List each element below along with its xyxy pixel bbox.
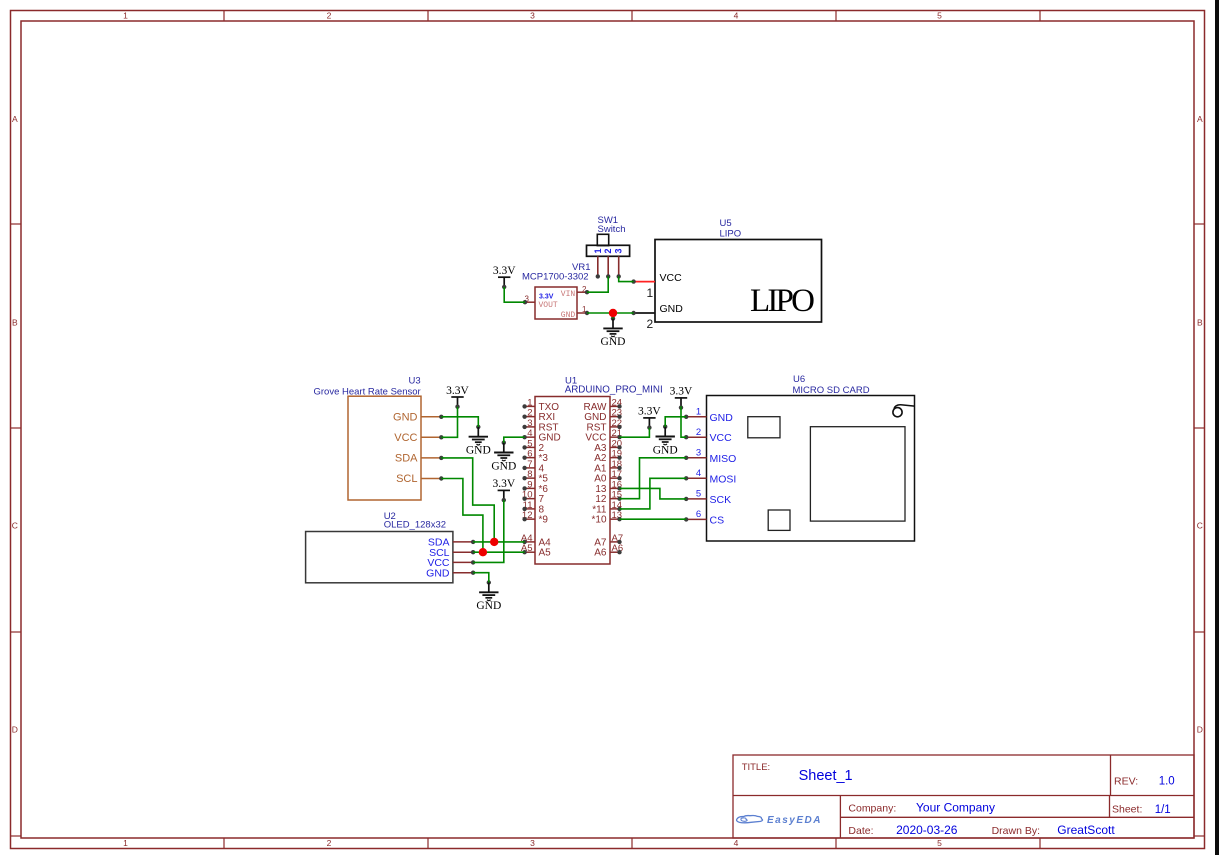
wire SCK U1 pin16 to U6 pin5 — [620, 488, 687, 499]
wire U6 VCC to 3.3V — [681, 406, 686, 437]
U1 pin 9 end dot — [522, 486, 526, 490]
U5 VCC pin end dot — [631, 279, 635, 283]
U1 pin 19 stub — [610, 457, 620, 459]
wire CS U1 pin13 to U6 pin6 — [620, 518, 687, 520]
power symbol 3.3V near U6 VCC — [670, 386, 693, 410]
svg-text:EasyEDA: EasyEDA — [767, 815, 822, 826]
ground symbol near U6 — [653, 425, 678, 457]
junction dot GND net below VR1 — [609, 309, 617, 317]
svg-text:GND: GND — [601, 336, 626, 348]
title block — [733, 755, 1194, 838]
U3 pin SDA stub — [421, 457, 441, 459]
svg-text:3.3V: 3.3V — [492, 478, 515, 490]
U1 pin 16 stub — [610, 487, 620, 489]
wire SW1 pin3 to U5 VCC — [619, 276, 634, 281]
svg-text:D: D — [12, 725, 18, 735]
svg-text:TITLE:: TITLE: — [742, 762, 771, 773]
svg-text:C: C — [12, 521, 18, 531]
U6 pin 2 stub — [686, 436, 706, 438]
U1 pin 22 stub — [610, 426, 620, 428]
svg-text:*10: *10 — [591, 515, 606, 526]
frame column tick top — [1039, 11, 1041, 22]
U3 pin SCL stub — [421, 478, 441, 480]
U2 pin GND stub — [453, 572, 473, 574]
U2 pin GND end dot — [471, 571, 475, 575]
U1 pin 15 end dot — [617, 496, 621, 500]
regulator VR1 pin VOUT stub — [525, 301, 535, 303]
svg-text:1: 1 — [696, 407, 701, 418]
svg-text:A5: A5 — [539, 548, 552, 559]
U1 pin 24 stub — [610, 405, 620, 407]
svg-text:GND: GND — [710, 412, 734, 424]
connector U5 body — [655, 240, 822, 323]
U1 pin A6 stub — [610, 551, 620, 553]
svg-text:GND: GND — [476, 600, 501, 612]
svg-text:LIPO: LIPO — [720, 228, 742, 239]
ground symbol near U3 — [466, 425, 491, 457]
U2 pin VCC end dot — [471, 560, 475, 564]
svg-text:1: 1 — [647, 286, 654, 300]
svg-text:1: 1 — [593, 248, 603, 253]
svg-text:2: 2 — [603, 248, 613, 253]
svg-text:MICRO SD CARD: MICRO SD CARD — [793, 385, 870, 396]
U1 pin 23 end dot — [617, 414, 621, 418]
svg-text:3.3V: 3.3V — [446, 385, 469, 397]
switch SW1 pin 1 end dot — [596, 274, 600, 278]
U1 pin 20 stub — [610, 446, 620, 448]
svg-text:6: 6 — [696, 509, 701, 520]
svg-text:SDA: SDA — [395, 453, 418, 465]
svg-text:4: 4 — [734, 11, 739, 21]
regulator VR1 pin VIN stub — [577, 291, 587, 293]
U1 pin 17 end dot — [617, 476, 621, 480]
U1 pin 10 end dot — [522, 496, 526, 500]
svg-text:1: 1 — [123, 838, 128, 848]
wire VR1 GND to U5 GND — [587, 312, 634, 314]
U1 pin 6 end dot — [522, 455, 526, 459]
U6 inner rectangle large — [810, 427, 905, 521]
U3 pin SCL end dot — [439, 476, 443, 480]
U5 pin 1 VCC stub — [634, 281, 655, 283]
U1 pin 22 end dot — [617, 425, 621, 429]
svg-text:Sheet_1: Sheet_1 — [799, 768, 853, 784]
svg-text:D: D — [1197, 725, 1203, 735]
svg-text:GND: GND — [491, 460, 516, 472]
U2 pin SCL end dot — [471, 550, 475, 554]
switch SW1 pin 2 stub — [607, 256, 609, 276]
U1 pin 14 stub — [610, 508, 620, 510]
svg-text:Switch: Switch — [598, 224, 626, 235]
svg-text:4: 4 — [696, 468, 701, 479]
U6 inner rectangle small bottom — [768, 510, 790, 530]
frame row tick right — [1194, 631, 1205, 633]
U6 pin 4 end dot — [684, 476, 688, 480]
svg-text:GND: GND — [466, 445, 491, 457]
wire 3.3V to U3 VCC — [441, 407, 457, 438]
U3 pin GND end dot — [439, 415, 443, 419]
ground symbol near U1 pin4 — [491, 441, 516, 473]
U1 pin 7 end dot — [522, 466, 526, 470]
U1 pin 7 stub — [525, 467, 535, 469]
frame column tick top — [223, 11, 225, 22]
U1 pin 8 stub — [525, 477, 535, 479]
U2 pin VCC stub — [453, 561, 473, 563]
VR1 VOUT pin end dot — [523, 300, 527, 304]
U6 pin 3 end dot — [684, 456, 688, 460]
power symbol 3.3V near VR1 — [493, 265, 516, 289]
svg-text:B: B — [12, 318, 18, 328]
svg-text:A: A — [12, 114, 18, 124]
U6 pin 1 stub — [686, 416, 706, 418]
wire 3.3V to VR1 VOUT — [504, 287, 525, 302]
U6 pin 5 end dot — [684, 497, 688, 501]
U6 pin 6 end dot — [684, 517, 688, 521]
power symbol 3.3V near U1 VCC — [638, 406, 661, 430]
U1 pin 15 stub — [610, 498, 620, 500]
switch SW1 pin 3 stub — [618, 256, 620, 276]
svg-text:GND: GND — [561, 311, 576, 320]
U1 pin A7 stub — [610, 541, 620, 543]
U6 pin 4 stub — [686, 477, 706, 479]
U1 pin 18 stub — [610, 467, 620, 469]
svg-text:SCK: SCK — [710, 494, 732, 506]
switch SW1 pin 3 end dot — [617, 274, 621, 278]
U1 pin A7 end dot — [617, 540, 621, 544]
frame row tick right — [1194, 427, 1205, 429]
svg-text:REV:: REV: — [1114, 775, 1138, 787]
power symbol 3.3V near U3 — [446, 385, 469, 409]
U1 pin 1 end dot — [522, 404, 526, 408]
wire U3 GND to ground — [441, 417, 478, 427]
connector U6 body — [707, 396, 915, 542]
U1 pin 13 end dot — [617, 517, 621, 521]
ground symbol below U2 — [476, 580, 501, 612]
wire U3 SDA to SDA net — [441, 458, 494, 542]
wire 3.3V to U2 VCC — [473, 500, 504, 562]
U1 pin 21 stub — [610, 436, 620, 438]
svg-text:2: 2 — [327, 838, 332, 848]
frame row tick left — [11, 835, 22, 837]
wire U1 VCC pin21 to 3.3V — [620, 428, 650, 438]
title block company/date divider — [840, 816, 1194, 818]
U6 pin 3 stub — [686, 457, 706, 459]
svg-text:A: A — [1197, 114, 1203, 124]
U1 pin 10 stub — [525, 498, 535, 500]
wire U1 GND pin4 to ground — [504, 437, 525, 443]
switch SW1 body — [587, 245, 630, 256]
U1 pin 20 end dot — [617, 445, 621, 449]
U1 pin A4 end dot — [522, 540, 526, 544]
U1 pin A5 stub — [525, 551, 535, 553]
svg-text:3.3V: 3.3V — [638, 406, 661, 418]
U1 pin 8 end dot — [522, 476, 526, 480]
U1 pin 3 stub — [525, 426, 535, 428]
svg-text:3.3V: 3.3V — [539, 294, 554, 301]
svg-text:GND: GND — [393, 411, 418, 423]
svg-text:ARDUINO_PRO_MINI: ARDUINO_PRO_MINI — [565, 385, 663, 396]
U1 pin 11 stub — [525, 508, 535, 510]
frame column tick bottom — [223, 838, 225, 849]
wire U2 GND to ground — [473, 573, 489, 583]
U1 pin 18 end dot — [617, 466, 621, 470]
svg-text:GND: GND — [653, 444, 678, 456]
U1 pin A4 stub — [525, 541, 535, 543]
svg-text:5: 5 — [937, 838, 942, 848]
svg-text:3.3V: 3.3V — [493, 265, 516, 277]
svg-text:LIPO: LIPO — [750, 283, 814, 319]
U6 card-detect lever — [894, 405, 915, 409]
U1 pin 5 end dot — [522, 445, 526, 449]
svg-text:VOUT: VOUT — [539, 301, 558, 310]
U6 pin 1 end dot — [684, 415, 688, 419]
svg-text:1/1: 1/1 — [1155, 804, 1171, 816]
wire U6 GND to ground — [665, 417, 686, 427]
U5 GND pin end dot — [631, 311, 635, 315]
U3 pin SDA end dot — [439, 456, 443, 460]
U1 pin 13 stub — [610, 518, 620, 520]
U1 pin 17 stub — [610, 477, 620, 479]
frame column tick top — [835, 11, 837, 22]
svg-text:4: 4 — [734, 838, 739, 848]
svg-text:B: B — [1197, 318, 1203, 328]
frame row tick left — [11, 223, 22, 225]
U1 pin 5 stub — [525, 446, 535, 448]
U1 pin 21 end dot — [617, 435, 621, 439]
svg-text:CS: CS — [710, 514, 725, 526]
frame column tick bottom — [1039, 838, 1041, 849]
svg-text:U3: U3 — [409, 375, 421, 386]
svg-text:GreatScott: GreatScott — [1057, 823, 1115, 837]
svg-text:5: 5 — [937, 11, 942, 21]
svg-text:MCP1700-3302: MCP1700-3302 — [522, 272, 589, 283]
svg-text:2: 2 — [696, 427, 701, 438]
regulator VR1 pin GND stub — [577, 312, 587, 314]
switch SW1 actuator tab — [597, 234, 608, 245]
svg-text:A6: A6 — [594, 548, 607, 559]
svg-text:3: 3 — [614, 248, 624, 253]
junction dot SDA net — [490, 538, 498, 546]
VR1 GND pin end dot — [585, 311, 589, 315]
regulator VR1 body — [535, 287, 577, 319]
U6 card-detect circle — [893, 408, 902, 417]
svg-text:5: 5 — [696, 489, 701, 500]
U1 pin 2 stub — [525, 416, 535, 418]
svg-text:VCC: VCC — [710, 432, 733, 444]
svg-text:SCL: SCL — [396, 473, 417, 485]
U1 pin 14 end dot — [617, 507, 621, 511]
U1 pin 9 stub — [525, 487, 535, 489]
U2 pin SCL stub — [453, 551, 473, 553]
U1 pin 12 end dot — [522, 517, 526, 521]
svg-text:MISO: MISO — [710, 453, 737, 465]
svg-text:U6: U6 — [793, 374, 805, 385]
frame row tick right — [1194, 835, 1205, 837]
wire MOSI U1 pin14 to U6 pin4 — [620, 478, 687, 509]
sensor U3 body — [348, 396, 421, 500]
svg-text:3: 3 — [530, 838, 535, 848]
U1 pin 16 end dot — [617, 486, 621, 490]
svg-text:C: C — [1197, 521, 1203, 531]
svg-text:GND: GND — [426, 568, 450, 580]
black screen edge right — [1215, 0, 1219, 855]
svg-text:VCC: VCC — [660, 272, 683, 284]
U6 pin 6 stub — [686, 518, 706, 520]
frame column tick top — [427, 11, 429, 22]
svg-text:3.3V: 3.3V — [670, 386, 693, 398]
U6 pin 5 stub — [686, 498, 706, 500]
svg-text:VIN: VIN — [561, 290, 576, 299]
EasyEDA logo — [737, 815, 822, 826]
U6 inner rectangle small top — [748, 417, 780, 438]
svg-text:1: 1 — [123, 11, 128, 21]
U2 pin SDA end dot — [471, 540, 475, 544]
wire U2 SDA to U1 A4 — [473, 541, 524, 543]
junction dot SCL net — [479, 548, 487, 556]
U1 pin A5 end dot — [522, 550, 526, 554]
U1 pin 11 end dot — [522, 507, 526, 511]
wire U2 SCL to U1 A5 — [473, 551, 524, 553]
svg-text:2: 2 — [647, 317, 654, 331]
frame column tick bottom — [427, 838, 429, 849]
U1 pin 6 stub — [525, 457, 535, 459]
svg-text:3: 3 — [696, 448, 701, 459]
wire SW1 pin2 to VR1 VIN — [587, 276, 608, 292]
U1 pin 2 end dot — [522, 414, 526, 418]
U2 pin SDA stub — [453, 541, 473, 543]
wire GND branch below VR1 — [612, 313, 614, 319]
frame column tick bottom — [835, 838, 837, 849]
svg-text:2: 2 — [327, 11, 332, 21]
U3 pin GND stub — [421, 416, 441, 418]
svg-text:*9: *9 — [539, 515, 549, 526]
U3 pin VCC end dot — [439, 435, 443, 439]
wire MISO U1 pin15 to U6 pin3 — [620, 458, 687, 499]
frame row tick left — [11, 631, 22, 633]
U1 pin 1 stub — [525, 405, 535, 407]
U5 pin 2 GND stub — [634, 312, 655, 314]
svg-text:3: 3 — [530, 11, 535, 21]
frame row tick left — [11, 427, 22, 429]
mcu U1 body — [535, 397, 610, 565]
svg-text:VCC: VCC — [394, 432, 417, 444]
wire U3 SCL to SCL net — [441, 479, 483, 553]
svg-text:Your Company: Your Company — [916, 801, 995, 815]
svg-text:Drawn By:: Drawn By: — [992, 825, 1040, 837]
title block divider horizontal — [733, 795, 1194, 797]
frame column tick top — [631, 11, 633, 22]
svg-text:Sheet:: Sheet: — [1112, 804, 1142, 816]
display U2 body — [306, 532, 453, 583]
U1 pin 4 end dot — [522, 435, 526, 439]
U1 pin 3 end dot — [522, 425, 526, 429]
svg-text:OLED_128x32: OLED_128x32 — [384, 520, 446, 531]
svg-text:1.0: 1.0 — [1159, 775, 1175, 787]
title block sheet divider — [1109, 796, 1111, 818]
svg-text:Company:: Company: — [848, 802, 896, 814]
switch SW1 pin 2 end dot — [606, 274, 610, 278]
U1 pin 19 end dot — [617, 455, 621, 459]
svg-text:MOSI: MOSI — [710, 473, 737, 485]
power symbol 3.3V near U2 — [492, 478, 515, 502]
U1 pin 23 stub — [610, 416, 620, 418]
U1 pin 24 end dot — [617, 404, 621, 408]
svg-text:2020-03-26: 2020-03-26 — [896, 823, 958, 837]
svg-text:Date:: Date: — [848, 825, 873, 837]
frame column tick bottom — [631, 838, 633, 849]
ground symbol below VR1 — [601, 316, 626, 348]
title block logo divider — [839, 796, 841, 839]
U1 pin 4 stub — [525, 436, 535, 438]
U6 pin 2 end dot — [684, 435, 688, 439]
frame row tick right — [1194, 223, 1205, 225]
U3 pin VCC stub — [421, 436, 441, 438]
U1 pin A6 end dot — [617, 550, 621, 554]
U1 pin 12 stub — [525, 518, 535, 520]
VR1 VIN pin end dot — [585, 290, 589, 294]
switch SW1 pin 1 stub — [597, 256, 599, 276]
svg-text:GND: GND — [660, 303, 684, 315]
title block REV divider — [1110, 755, 1112, 796]
